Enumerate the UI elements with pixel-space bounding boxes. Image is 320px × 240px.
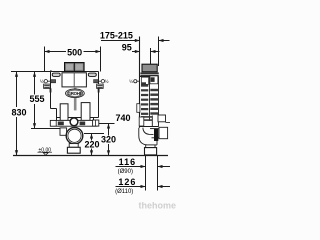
access box [62, 73, 86, 87]
right leg [81, 103, 90, 121]
leader line 555 bottom [31, 128, 60, 130]
svg-text:thehome: thehome [139, 201, 177, 211]
svg-text:½: ½ [40, 78, 44, 84]
dimension 500 [45, 47, 101, 72]
bottom mounting rail [50, 120, 97, 126]
dimension 555 [29, 72, 45, 129]
svg-text:½: ½ [105, 78, 109, 84]
side view lower connector [159, 127, 168, 138]
side view drop pipe [146, 145, 155, 148]
side view ribs left column [141, 85, 152, 121]
side view top bands [140, 72, 158, 74]
dimension 116 (Ø90) [116, 157, 171, 175]
dimension 95 [122, 42, 160, 64]
svg-text:GROHE: GROHE [68, 91, 83, 96]
svg-text:555: 555 [29, 94, 44, 104]
floor line [13, 155, 168, 157]
svg-text:(Ø90): (Ø90) [118, 169, 133, 175]
top-right grommet oval [88, 73, 96, 76]
svg-text:220: 220 [84, 139, 99, 149]
svg-text:(Ø110): (Ø110) [115, 189, 133, 195]
dimension 830 [10, 72, 29, 156]
rail joint circle [70, 118, 78, 126]
actuator plate box [65, 63, 84, 72]
svg-text:175-215: 175-215 [100, 31, 133, 41]
dimension 126 (Ø110) [115, 177, 170, 195]
side view right window [150, 76, 158, 84]
dimension 320 [101, 124, 118, 156]
dimension 220 [84, 134, 100, 156]
svg-text:½: ½ [129, 78, 133, 84]
side view front face line [139, 37, 141, 128]
floor level mark ±0.00 [38, 147, 53, 155]
side view bottom-left fitting [139, 117, 144, 126]
GROHE logo [66, 89, 85, 98]
leader line 220 [84, 133, 104, 135]
side view tank body [140, 77, 159, 127]
svg-text:320: 320 [101, 135, 116, 145]
flush pipe (grey) [74, 87, 77, 111]
top extension line [11, 71, 50, 73]
svg-text:500: 500 [67, 48, 82, 58]
side view upper connector [158, 115, 166, 122]
svg-text:740: 740 [115, 113, 130, 123]
left spigot at bend [60, 128, 67, 135]
tank outline front view [50, 72, 99, 121]
side view pipe socket [145, 148, 157, 155]
side view fill valve window [141, 77, 148, 84]
svg-text:116: 116 [119, 157, 137, 167]
left leg [60, 104, 68, 121]
left stop valve box [44, 84, 51, 88]
svg-text:126: 126 [118, 177, 136, 187]
flush bend circle [66, 128, 83, 145]
side view 1/2 mark [129, 78, 140, 84]
svg-text:830: 830 [11, 108, 26, 118]
right outlet spigot [93, 120, 99, 126]
right stop valve box [97, 84, 104, 88]
leader line 320 [99, 123, 115, 125]
top-left grommet oval [52, 73, 60, 76]
left water inlet 1/2 mark [40, 78, 56, 84]
elbow junction shadow [154, 129, 158, 141]
front drop pipe [69, 144, 78, 148]
svg-text:95: 95 [122, 42, 132, 52]
extension lines pipe socket [145, 156, 147, 191]
dimension 175-215 [100, 31, 170, 67]
side view left bracket [137, 104, 140, 113]
right water inlet 1/2 mark [94, 78, 109, 84]
front pipe socket [67, 147, 80, 153]
side view actuator box [142, 64, 157, 72]
side view elbow [139, 128, 159, 145]
side view ribs right column [150, 89, 158, 115]
